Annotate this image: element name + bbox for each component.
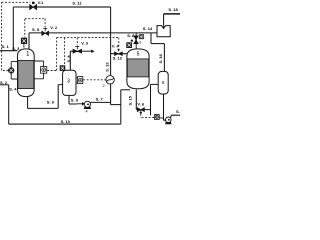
- vessel 1 shell: [18, 49, 35, 97]
- vessel 5 gray band: [127, 59, 148, 77]
- svg-text:S. 1: S. 1: [2, 44, 10, 49]
- svg-text:S. 8: S. 8: [127, 33, 135, 38]
- svg-text:S. 8: S. 8: [66, 55, 71, 63]
- svg-text:S. 6: S. 6: [47, 100, 55, 105]
- svg-text:S. 10: S. 10: [61, 119, 71, 124]
- wire pill vessel left line down: [151, 84, 159, 109]
- vessel 1 gray band: [18, 60, 34, 88]
- instrument beside valve V.5: [139, 35, 144, 39]
- wire over to pill vessel: [151, 43, 164, 45]
- instrument near pump 6: [155, 115, 160, 120]
- wire box 7 top inlet: [163, 14, 165, 29]
- instrument on vessel 1 right: [41, 67, 47, 74]
- svg-text:S. 7: S. 7: [96, 97, 104, 102]
- wire junction to vessel 5 bottom line: [111, 104, 121, 106]
- svg-text:4: 4: [85, 109, 87, 113]
- wire vessel 5 bottom stub: [121, 89, 130, 91]
- pump 6: [165, 117, 171, 124]
- svg-text:S. 9: S. 9: [71, 98, 79, 103]
- wire vessel 2 vapor line to V.3: [70, 51, 73, 70]
- pill vessel 8: [158, 71, 168, 94]
- valve V.3 with vent arrow: [73, 46, 95, 53]
- vessel 3 right chamber instrument: [76, 77, 83, 84]
- wire S.10 long bottom line: [9, 123, 121, 125]
- signal dome instrument to V.2: [25, 19, 45, 38]
- wire S.16 down into pill vessel 8: [163, 44, 165, 72]
- wire riser to V.1: [12, 7, 14, 51]
- svg-text:3: 3: [67, 79, 70, 85]
- signal LI vessel1 to V.1: [2, 2, 31, 70]
- wire bottom left riser: [8, 85, 10, 124]
- svg-text:S. 11: S. 11: [72, 0, 82, 5]
- valve on S.12 line: [115, 49, 123, 56]
- wire pill vessel drain to pump 6: [164, 94, 166, 120]
- wire vessel 5 bottom nozzle down: [120, 90, 122, 124]
- svg-text:5: 5: [137, 51, 140, 57]
- stream and valve labels: [0, 0, 186, 124]
- dashed signal lines: [2, 2, 155, 117]
- instrument dark on vessel 5 top left: [127, 43, 132, 48]
- valve V.6 under vessel 5: [137, 108, 144, 114]
- wire tee down at 151: [150, 33, 152, 44]
- wire pump 6 discharge S.17: [170, 115, 180, 118]
- valve V.5 above vessel 5: [131, 33, 142, 49]
- svg-text:S. 2: S. 2: [0, 80, 8, 85]
- instrument LI on vessel 1 left: [8, 68, 14, 74]
- svg-text:V. 2: V. 2: [50, 25, 58, 30]
- signal V.6 to instrument: [141, 114, 155, 118]
- wire S.5 S.14 long line to box 7: [49, 32, 157, 34]
- svg-text:6: 6: [139, 41, 141, 45]
- instrument on vessel 1 dome (to V.2 loop): [21, 38, 27, 48]
- svg-text:S. 18: S. 18: [168, 7, 178, 12]
- vessel 3 (small drum): [63, 70, 76, 95]
- wire V.6 outlet to corner: [144, 110, 150, 116]
- wire vessel 1 top pipe to V.2: [29, 33, 42, 50]
- wire drop from S.11 down to compressor and junction: [110, 7, 112, 105]
- svg-text:2: 2: [103, 84, 105, 88]
- vessel 5 shell: [127, 49, 149, 89]
- wire vessel 5 drain to valve V.6: [136, 90, 137, 110]
- valve V.2: [42, 28, 49, 35]
- svg-text:V. 3: V. 3: [81, 41, 89, 46]
- wire into valve on S.12: [111, 53, 115, 55]
- svg-text:S. 3: S. 3: [12, 46, 20, 51]
- pump 4: [77, 101, 91, 113]
- box 7 top right with notch: [157, 26, 170, 37]
- svg-text:V.1: V.1: [38, 0, 44, 5]
- svg-text:V. 4: V. 4: [112, 44, 120, 49]
- vessel 1 left level chamber: [11, 62, 17, 79]
- wire vessel 3 drain to pump 4: [69, 95, 77, 104]
- wire instrument stub to drain: [159, 117, 164, 119]
- wire valve to vessel 5: [122, 53, 129, 55]
- vessel 1 right level chamber: [34, 61, 43, 79]
- svg-text:S. 13: S. 13: [105, 62, 110, 72]
- svg-text:V. 6: V. 6: [137, 102, 145, 107]
- instrument on vessel 3 top: [60, 66, 65, 71]
- wire S.6 vessel1 bottom to vessel 3: [28, 85, 63, 109]
- svg-text:S. 5: S. 5: [32, 27, 40, 32]
- wire S.11 top line: [36, 6, 110, 8]
- wire S.1 feed in left: [0, 50, 17, 52]
- valve V.1: [30, 2, 37, 10]
- svg-text:S. 16: S. 16: [158, 53, 163, 63]
- svg-text:S. 15: S. 15: [127, 95, 132, 105]
- wire S.2 exit left: [0, 84, 9, 86]
- svg-text:S. 12: S. 12: [113, 55, 123, 60]
- wire pump 4 discharge S.7: [91, 101, 111, 103]
- wire S.18 exit right: [164, 13, 180, 15]
- wire to valve V.1: [13, 6, 30, 8]
- signal vessel3 chamber to compressor: [83, 79, 106, 81]
- signal long line along valves: [47, 38, 119, 71]
- svg-text:S. 17: S. 17: [176, 109, 180, 114]
- svg-text:S. 14: S. 14: [143, 26, 153, 31]
- compressor 2 on vertical line: [103, 76, 115, 88]
- svg-text:S. 4: S. 4: [9, 86, 17, 91]
